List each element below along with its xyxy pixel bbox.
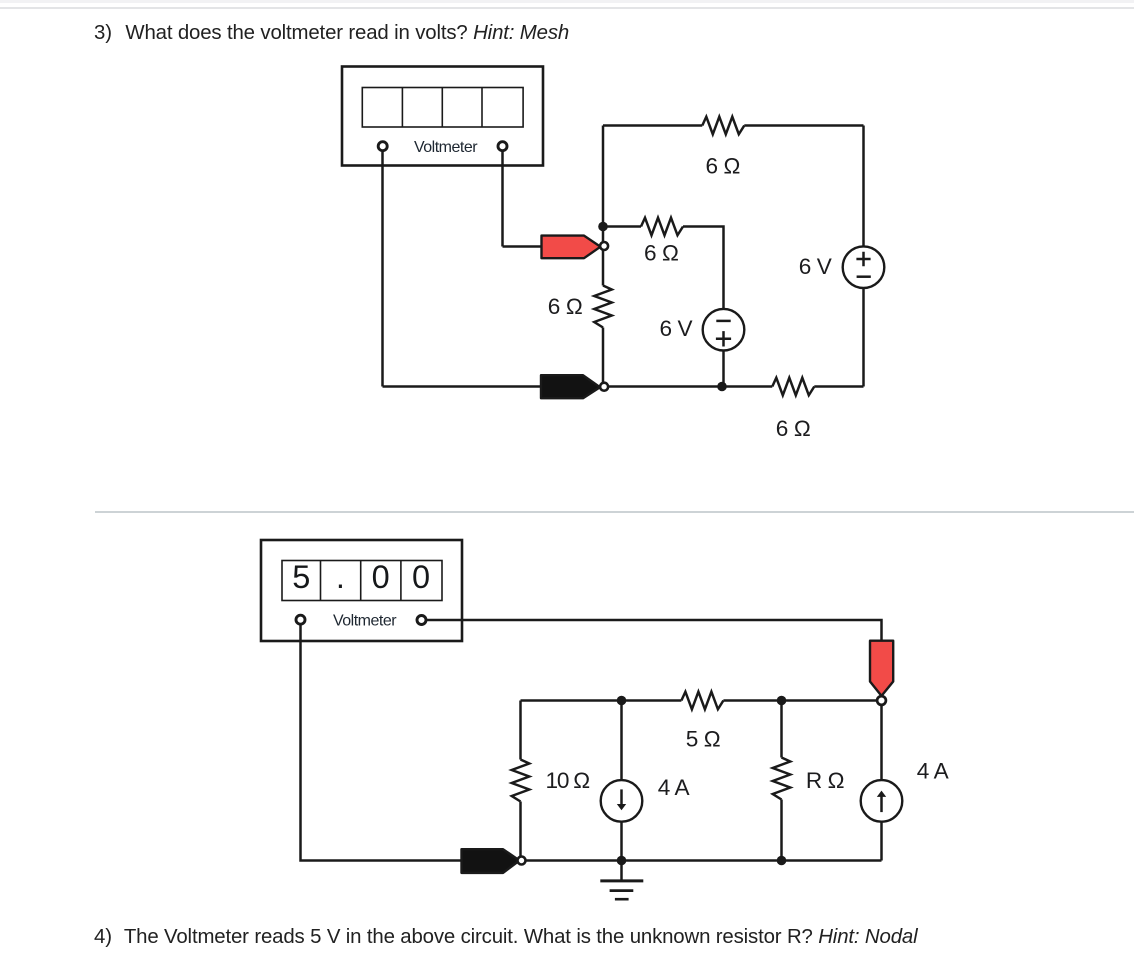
wire top rail left segment bbox=[521, 699, 682, 702]
node at black probe tip bbox=[518, 857, 526, 865]
wire bottom rail bbox=[523, 859, 882, 862]
VM1 terminal + bbox=[378, 142, 387, 151]
wire vertical trunk x=603 upper bbox=[602, 126, 605, 286]
resistor R7 Rohm (vertical) bbox=[773, 758, 791, 800]
wire bottom left run to black probe bbox=[383, 385, 543, 388]
node F junction dot bbox=[777, 856, 787, 866]
wire V1 bottom lead bbox=[722, 351, 725, 387]
node at red probe tip bbox=[600, 242, 608, 250]
svg-text:4 A: 4 A bbox=[658, 775, 691, 800]
wire R branch upper bbox=[780, 701, 783, 758]
top grey rule bbox=[0, 7, 1134, 9]
wire I2 bottom lead bbox=[880, 822, 883, 861]
node at red probe tip bbox=[877, 696, 886, 705]
wire bottom rail right segment bbox=[814, 385, 863, 388]
resistor R3 6ohm (vertical) bbox=[594, 286, 612, 328]
wire node A to R2 bbox=[603, 225, 641, 228]
VM2 terminal - bbox=[417, 616, 426, 625]
wire top rail right segment bbox=[744, 124, 863, 127]
current source I2 4A (up arrow) bbox=[861, 780, 903, 822]
resistor R2 6ohm (middle horizontal) bbox=[641, 218, 683, 236]
svg-text:6 Ω: 6 Ω bbox=[706, 154, 741, 179]
top toolbar bottom band bbox=[0, 0, 1134, 3]
wire left branch lower bbox=[519, 802, 522, 861]
wire I1 bottom lead bbox=[620, 822, 623, 861]
wire VM2 right lead to corner bbox=[422, 620, 882, 641]
wire right rail lower bbox=[862, 288, 865, 387]
VM1 terminal - bbox=[498, 142, 507, 151]
wire top rail right segment bbox=[723, 699, 877, 702]
VM2 terminal + bbox=[296, 615, 305, 624]
wire R2 to middle branch corner bbox=[683, 227, 724, 310]
node E junction dot (ground node) bbox=[617, 856, 627, 866]
wire I2 top lead bbox=[880, 705, 883, 780]
wire vertical trunk x=603 lower bbox=[602, 328, 605, 387]
node at black probe tip bbox=[600, 383, 608, 391]
wire top rail left segment bbox=[603, 124, 702, 127]
node C junction dot (top left) bbox=[617, 696, 627, 706]
node D junction dot (top right) bbox=[777, 696, 787, 706]
svg-text:5: 5 bbox=[292, 559, 310, 595]
resistor R1 6ohm (top) bbox=[702, 117, 744, 135]
svg-text:0: 0 bbox=[372, 559, 390, 595]
node B junction dot bbox=[717, 382, 727, 392]
wire VM1 right lead down bbox=[501, 152, 504, 247]
black probe P4 bbox=[462, 849, 520, 873]
resistor R6 10ohm (left vertical) bbox=[512, 760, 530, 802]
node A junction dot bbox=[598, 222, 608, 232]
svg-text:6 V: 6 V bbox=[660, 316, 693, 341]
ground symbol bbox=[600, 865, 643, 899]
svg-text:6 Ω: 6 Ω bbox=[548, 294, 583, 319]
resistor R5 5ohm (top) bbox=[681, 692, 723, 710]
red probe P3 (pointing down) bbox=[870, 641, 893, 696]
red probe P1 bbox=[542, 236, 601, 259]
current source I1 4A (down arrow) bbox=[601, 780, 643, 822]
voltmeter VM1 bbox=[342, 67, 543, 166]
wire left branch upper bbox=[519, 701, 522, 760]
svg-text:4 A: 4 A bbox=[917, 759, 950, 784]
svg-text:Voltmeter: Voltmeter bbox=[333, 613, 397, 630]
question 3 text bbox=[94, 23, 569, 43]
svg-text:.: . bbox=[336, 559, 345, 595]
svg-text:6 Ω: 6 Ω bbox=[644, 241, 679, 266]
wire right rail upper bbox=[862, 126, 865, 247]
svg-text:6 V: 6 V bbox=[799, 254, 832, 279]
wire R branch lower bbox=[780, 800, 783, 861]
resistor R4 6ohm (bottom) bbox=[772, 378, 814, 396]
wire bottom rail left segment bbox=[605, 385, 772, 388]
voltage source V2 6V (right) bbox=[843, 246, 885, 288]
svg-text:5 Ω: 5 Ω bbox=[686, 726, 721, 751]
svg-text:10 Ω: 10 Ω bbox=[546, 768, 590, 793]
voltage source V1 6V (middle) bbox=[703, 309, 745, 351]
svg-text:Voltmeter: Voltmeter bbox=[414, 139, 478, 156]
svg-text:0: 0 bbox=[412, 559, 430, 595]
VM2 display digits 5.00 bbox=[292, 559, 430, 595]
wire VM1 left lead down bbox=[381, 152, 384, 387]
svg-text:6 Ω: 6 Ω bbox=[776, 416, 811, 441]
wire I1 top lead bbox=[620, 701, 623, 781]
wire to red probe bbox=[503, 245, 543, 248]
section separator rule bbox=[95, 511, 1134, 513]
voltmeter VM2 bbox=[261, 540, 462, 641]
black probe P2 bbox=[541, 375, 600, 398]
question 4 text bbox=[94, 927, 917, 947]
wire VM2 left lead down and right bbox=[301, 625, 463, 861]
svg-text:R Ω: R Ω bbox=[806, 768, 844, 793]
